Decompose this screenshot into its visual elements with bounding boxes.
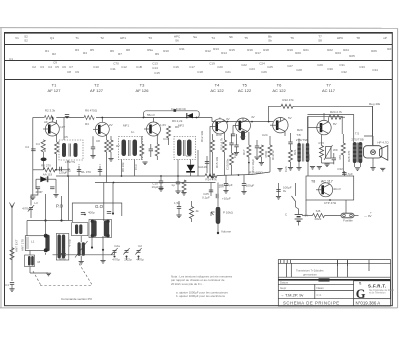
svg-text:470Ω: 470Ω [264,150,268,158]
svg-text:S6: S6 [175,39,179,43]
svg-text:R24: R24 [343,48,349,52]
svg-text:0,1μF: 0,1μF [202,196,210,200]
svg-text:S.F.R.T.: S.F.R.T. [368,283,387,288]
svg-text:C32: C32 [337,167,343,171]
svg-text:C13: C13 [152,62,158,66]
components in AF driver area (T4/T5) [210,131,268,176]
antenna series cap + ground [10,283,14,285]
svg-text:2/22p: 2/22p [124,258,132,262]
svg-text:C2a: C2a [114,244,120,248]
svg-text:C7: C7 [69,65,73,69]
verticals from MF boxes to bus [67,160,69,176]
svg-text:⇅: ⇅ [359,281,362,285]
IF transformer MF1 [59,140,83,164]
svg-text:C70: C70 [113,62,119,66]
svg-text:C13: C13 [134,164,138,170]
capacitor C11 1uF [177,176,179,182]
svg-text:C2: C2 [32,65,36,69]
resistor R26 (vertical, T7 emitter) [319,146,323,158]
capacitor C10 16uF [160,176,162,181]
nota text block [171,275,233,299]
svg-text:Sb: Sb [229,35,233,39]
svg-text:C28: C28 [296,68,302,72]
capacitor 10n [225,175,227,184]
svg-text:1μ: 1μ [171,183,175,187]
svg-text:C14: C14 [163,137,169,141]
small parts row in osc box [81,213,85,215]
svg-text:R4: R4 [85,122,89,126]
svg-text:R6 470Ω: R6 470Ω [85,109,98,113]
resistor R14 47k [205,174,217,178]
svg-text:C8: C8 [96,139,100,143]
IF transformer MF2 [119,124,143,160]
svg-text:AC 117: AC 117 [322,88,336,93]
title block small texts [280,269,325,298]
svg-text:R27: R27 [387,47,393,51]
svg-text:C5: C5 [64,135,68,139]
svg-text:Sa: Sa [193,35,197,39]
transistor T6 [270,118,288,133]
wire: AGC box above T3 [144,111,200,118]
svg-text:C22: C22 [241,63,247,67]
svg-text:R5: R5 [90,48,94,52]
svg-text:R22: R22 [327,48,333,52]
volume control cluster [202,183,233,235]
wire: osc feedback riser [103,183,105,222]
svg-text:2TS/TSB: 2TS/TSB [351,138,363,142]
svg-text:R26: R26 [371,49,377,53]
base drop T5 from MF3 [232,126,234,135]
svg-text:470: 470 [338,155,342,160]
svg-text:9v: 9v [283,189,287,193]
svg-text:4/70p: 4/70p [112,258,120,262]
svg-text:T.B: T.B [296,133,300,137]
svg-text:470p: 470p [59,257,66,261]
svg-text:C29: C29 [317,63,323,67]
transistor T2 [93,118,109,137]
oscillator section box [72,203,122,222]
svg-text:R22 47k: R22 47k [282,98,294,102]
svg-text:Gepr: Gepr [280,286,286,290]
svg-text:T2: T2 [100,36,104,40]
svg-text:AA119: AA119 [198,165,207,169]
wire: T7 stage box [308,116,342,134]
svg-text:4k: 4k [196,209,200,213]
components under T1/T2 [109,140,113,152]
oscillator transformer windings [89,220,112,238]
svg-text:C7: C7 [68,168,72,172]
svg-text:T4: T4 [211,36,215,40]
svg-text:+10μF: +10μF [222,197,231,201]
resistor R2 3.3k [44,115,54,119]
svg-text:R7: R7 [116,144,120,148]
svg-text:C31: C31 [339,63,345,67]
svg-text:C17: C17 [189,65,195,69]
svg-text:R16: R16 [247,48,253,52]
svg-text:5V: 5V [288,116,292,120]
svg-text:R20: R20 [295,51,301,55]
svg-text:R11: R11 [179,47,185,51]
svg-text:200P: 200P [35,190,42,194]
svg-text:C27: C27 [287,64,293,68]
svg-text:L1: L1 [31,240,35,244]
junction node osc [91,246,93,248]
wire: riser to output rail [269,106,281,121]
svg-text:0,2V: 0,2V [59,125,65,129]
resistor R13 (vertical under bus) [182,180,186,192]
T8 output enclosure box [306,176,354,200]
antenna coupling coil L0 [10,248,14,260]
detector diode D3 (dark) [187,165,195,172]
extra mid-stage labels [36,115,292,172]
svg-text:+: + [78,163,80,167]
svg-text:R5 270: R5 270 [41,164,51,168]
potentiometer P 10k (volume) [216,207,221,224]
svg-text:R17: R17 [255,51,261,55]
svg-text:C9: C9 [53,61,57,65]
wire+resistor fuse row [302,215,313,217]
svg-text:C24: C24 [259,62,265,66]
svg-text:R19 1k: R19 1k [271,150,275,160]
junction dots interconnect [227,121,229,123]
parts table rule 3 [5,60,393,62]
transistor T4 [210,118,227,135]
svg-text:Q1: Q1 [50,36,54,40]
ferrite MW coil L1 [25,236,47,251]
svg-text:AA 119: AA 119 [43,173,53,177]
svg-text:R21: R21 [303,48,309,52]
svg-text:1,6V: 1,6V [160,123,166,127]
parts table row 3 labels [9,57,378,75]
svg-text:C8: C8 [67,70,71,74]
svg-text:Ca 4/40 Cb: Ca 4/40 Cb [171,107,187,111]
svg-text:T2: T2 [94,83,99,88]
svg-text:P 10kΩ: P 10kΩ [223,211,234,215]
svg-text:AC 122: AC 122 [210,88,224,93]
wire: AVC line with R5 [33,169,43,171]
svg-text:9V: 9V [305,214,309,218]
resistor R6 470 [84,115,94,119]
dark smudge on thick rule [319,278,330,281]
svg-text:→ T.M.2P. 9v: → T.M.2P. 9v [280,293,303,298]
oscillator coupling coil (in box) [72,223,88,236]
svg-text:R16 4.7k: R16 4.7k [220,137,224,150]
wire: T3 emitter drop [157,135,159,136]
svg-text:Reg 40k: Reg 40k [369,102,381,106]
svg-text:et de Television: et de Television [369,292,386,295]
svg-text:R23: R23 [335,51,341,55]
capacitor C32 4.7uF [343,171,345,176]
svg-text:R7: R7 [118,52,122,56]
trimmer C2b [123,248,129,254]
transistor T7 [314,113,331,135]
svg-text:R3: R3 [43,148,47,152]
driver transformer TB [296,116,309,170]
svg-text:C4: C4 [25,145,29,149]
svg-text:RL 370: RL 370 [81,170,91,174]
ferrite MW coil L1 secondary [58,235,61,259]
svg-text:C20 50n: C20 50n [226,158,230,170]
svg-text:100μF: 100μF [246,184,255,188]
resistor R9 (vertical, between T3 and MF3) [166,126,170,138]
capacitor C6 [60,167,62,171]
svg-text:+: + [370,211,372,215]
fuse F1 [341,213,354,218]
svg-text:+: + [99,163,101,167]
svg-text:C4: C4 [48,65,52,69]
svg-text:T1: T1 [52,83,57,88]
svg-text:R3: R3 [75,48,79,52]
svg-text:C19: C19 [209,62,215,66]
transistor type labels under table [48,83,336,94]
capacitor C30 [332,158,336,160]
svg-text:C24: C24 [262,133,268,137]
svg-text:T7: T7 [326,83,331,88]
svg-text:R1: R1 [45,49,49,53]
svg-text:40mV: 40mV [333,187,341,191]
svg-text:R21: R21 [293,149,297,155]
svg-text:R9 2,2k: R9 2,2k [172,119,183,123]
on/off switch Int [295,183,297,196]
svg-text:C23: C23 [249,67,255,71]
svg-text:R28 470: R28 470 [347,150,351,162]
svg-text:T3: T3 [140,83,145,88]
svg-text:R20: R20 [297,128,303,132]
svg-text:4/70p: 4/70p [136,258,144,262]
loudspeaker HP 4.7ohm [363,136,389,170]
svg-text:20 kΩ/v sous pile de 9 v .: 20 kΩ/v sous pile de 9 v . [171,282,204,286]
svg-text:b. ajuster 1000μF pour les: b. ajuster 1000μF pour les electriciens [176,294,225,298]
svg-text:R2: R2 [52,52,56,56]
svg-text:R24 2.7k: R24 2.7k [330,110,343,114]
svg-text:Volume: Volume [221,230,231,234]
svg-text:2V: 2V [109,123,113,127]
svg-text:Naam: Naam [317,286,325,290]
svg-text:ANT EXT: ANT EXT [15,239,19,252]
parts table row 2 labels [45,47,393,58]
svg-text:4/70p: 4/70p [22,207,30,211]
svg-text:C24 10μF: C24 10μF [219,183,232,187]
antenna [10,203,15,282]
svg-text:R15: R15 [229,48,235,52]
svg-text:LTS/TS: LTS/TS [65,160,75,164]
wire: T2 emitter drop [106,135,108,140]
svg-text:R25: R25 [349,54,355,58]
wire: secondary bus [95,182,216,184]
wire: MF3 secondary drops [197,150,199,176]
svg-text:R15 10k: R15 10k [215,156,219,168]
svg-text:C10: C10 [93,65,99,69]
svg-text:Commande section PO: Commande section PO [61,297,93,301]
svg-text:R13: R13 [216,133,222,137]
svg-text:C12: C12 [121,65,127,69]
svg-text:C14: C14 [152,66,158,70]
svg-text:R6: R6 [110,49,114,53]
svg-text:N°019.386 A: N°019.386 A [356,301,381,306]
svg-text:400p: 400p [88,211,95,215]
svg-text:ANT 170: ANT 170 [21,239,25,251]
svg-text:C6: C6 [62,65,66,69]
svg-text:Fusible: Fusible [343,219,353,223]
components hanging between T2 and MF2 [140,144,144,156]
svg-text:Sb: Sb [268,39,272,43]
wire: output rail to right drop [293,106,373,145]
svg-text:L3: L3 [34,201,38,205]
transistor T1 [43,118,59,137]
svg-text:AC 122: AC 122 [272,88,286,93]
svg-text:R10: R10 [163,49,169,53]
svg-text:T.S: T.S [355,132,359,136]
extra verticals between T4 and T5 [234,145,238,147]
border frame [5,33,393,306]
LW coil L2 [25,255,35,267]
svg-text:T3: T3 [148,36,152,40]
svg-text:germanium: germanium [303,273,318,277]
svg-text:R17: R17 [240,135,246,139]
svg-text:R9: R9 [175,125,179,129]
wire drops to title block [337,260,339,266]
svg-text:SCHEMA DE PRINCIPE: SCHEMA DE PRINCIPE [283,300,340,305]
wire: left bus [32,118,34,197]
svg-text:R14: R14 [221,51,227,55]
svg-text:R19: R19 [287,48,293,52]
svg-text:AF: AF [44,120,48,124]
svg-text:MF1: MF1 [123,124,129,128]
svg-text:16μF: 16μF [152,185,159,189]
junction dots rail A [51,117,53,119]
svg-text:C4: C4 [36,142,40,146]
svg-text:0022: 0022 [315,217,322,221]
transistor T3 [144,118,161,137]
resistor R28 470 (vertical right of T7) [342,134,344,143]
svg-text:120μF: 120μF [59,170,68,174]
wire: main bottom bus [56,175,205,177]
svg-text:C20: C20 [217,65,223,69]
svg-text:C1: C1 [5,283,9,287]
svg-text:C3: C3 [40,65,44,69]
wire: collector interconnect T4-T6 [212,121,273,123]
resistor R24 2.7k [327,117,329,122]
capacitor C5 on rail [65,115,69,117]
svg-text:AF 127: AF 127 [48,88,62,93]
svg-text:C34: C34 [372,68,378,72]
electrolytic C8 + [78,166,80,176]
svg-text:C5: C5 [55,65,59,69]
wire: T6 emitter drop [284,131,286,136]
wire: top supply rail left [33,117,45,119]
svg-text:S.B: S.B [316,209,321,213]
cap + gnd mid left [159,187,163,189]
battery 9V [295,215,303,222]
svg-text:R9: R9 [155,52,159,56]
wire: T1 emitter drop [56,135,58,142]
svg-text:CTP 47Ω: CTP 47Ω [324,201,337,205]
electrolytic C27 100uF 9V [276,183,292,199]
svg-text:HP1: HP1 [120,36,126,40]
svg-text:C1: C1 [9,57,13,61]
ground (left bias) [53,195,58,198]
capacitor C4 [31,149,35,151]
svg-text:C26: C26 [261,70,267,74]
capacitor 470p [62,254,66,256]
svg-text:HPC: HPC [337,36,344,40]
svg-text:MF2: MF2 [178,124,184,128]
svg-text:R8: R8 [126,48,130,52]
svg-text:V1: V1 [15,36,19,40]
svg-text:C2: C2 [138,244,142,248]
svg-text:G.O: G.O [95,204,104,209]
svg-text:R2 3.3k: R2 3.3k [45,109,56,113]
svg-text:uP: uP [383,36,387,40]
svg-text:4,7μF: 4,7μF [345,172,353,176]
svg-text:1,5n: 1,5n [174,201,180,205]
svg-text:Datum: Datum [280,280,289,284]
svg-text:C33: C33 [359,65,365,69]
grounds near output [277,169,282,172]
svg-text:2TS/TSB: 2TS/TSB [296,138,308,142]
svg-text:T4: T4 [215,83,220,88]
svg-text:C30: C30 [327,67,333,71]
svg-text:T5: T5 [242,83,247,88]
svg-text:R4: R4 [83,51,87,55]
capacitor C2 200p [36,187,40,189]
thermistor CTN [326,147,332,159]
base drop T4 [209,126,211,175]
parts table rule 2 [5,44,393,46]
svg-text:T5: T5 [244,36,248,40]
svg-text:C15: C15 [154,71,160,75]
svg-text:8V: 8V [333,122,337,126]
svg-text:R12 39k: R12 39k [200,130,204,142]
svg-text:R9a: R9a [147,48,153,52]
svg-text:P.O: P.O [56,204,64,209]
components right of T6 [288,133,297,170]
capacitor C23 100uF [243,175,245,184]
wire: coil bottom link to trimmer row [53,254,115,256]
wire: MW coil bottom stubs [45,253,47,255]
parts table rule 4 [5,79,393,81]
svg-text:S8: S8 [318,39,322,43]
wire: rail drop to MF1 [63,118,65,141]
svg-text:AF 126: AF 126 [136,88,150,93]
svg-text:4,5V: 4,5V [318,141,324,145]
wire: T4 emitter drop [224,133,226,141]
svg-text:T6: T6 [290,36,294,40]
svg-text:0TB: 0TB [307,154,311,160]
svg-text:R8 10k: R8 10k [121,162,125,172]
svg-text:— 9V: — 9V [364,214,372,218]
svg-text:WK: WK [333,148,338,152]
title block [278,260,390,306]
svg-text:R18: R18 [263,48,269,52]
transistor T8 [316,183,333,197]
svg-text:R12: R12 [205,49,211,53]
wires in T7 area [308,127,314,129]
junction node A / B [44,219,46,221]
svg-text:T8: T8 [311,180,315,184]
svg-text:AF 127: AF 127 [90,88,104,93]
svg-text:C21: C21 [225,70,231,74]
wire: coil top link [27,220,65,222]
resistor R22 47k [281,104,293,108]
svg-text:C23 10μF: C23 10μF [251,159,255,172]
wire: feedback from speaker top [364,106,373,136]
output transformer TS [351,132,363,171]
svg-text:C16: C16 [173,65,179,69]
IF transformer MF3 [174,124,196,160]
svg-text:CxB: CxB [136,65,142,69]
svg-text:AC 122: AC 122 [238,88,252,93]
